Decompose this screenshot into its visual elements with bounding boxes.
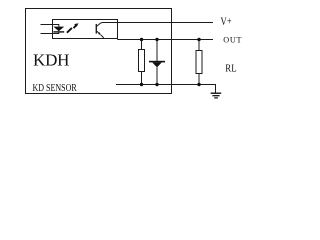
svg-text:KD SENSOR: KD SENSOR — [33, 82, 78, 93]
svg-text:RL: RL — [225, 63, 236, 75]
svg-text:KDH: KDH — [33, 51, 69, 70]
svg-text:OUT: OUT — [223, 35, 242, 44]
svg-text:V+: V+ — [220, 16, 231, 28]
